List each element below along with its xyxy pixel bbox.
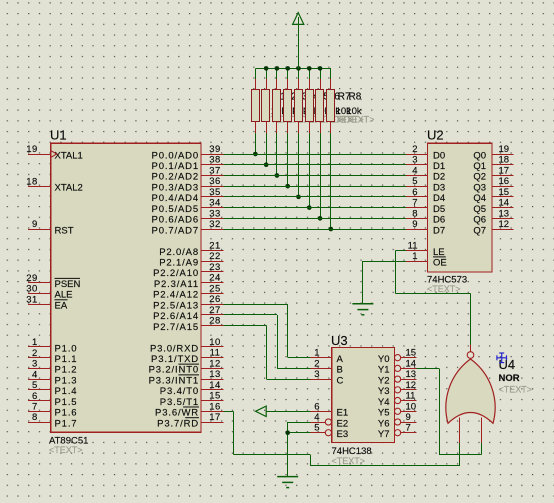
wire R2 top lead (266, 68, 268, 79)
U3 pin 13 (Y2) (395, 376, 401, 382)
svg-text:U2: U2 (427, 128, 444, 143)
U1 pin label overline (178, 363, 199, 365)
U1 pin label overline (185, 417, 199, 419)
wire R1 top lead (255, 68, 257, 79)
svg-text:4: 4 (32, 369, 38, 380)
svg-text:3: 3 (32, 359, 38, 370)
wire R5 top lead (298, 68, 300, 79)
U2 pin 9 (D7) (406, 229, 428, 231)
svg-text:3: 3 (314, 369, 319, 380)
U3 pin 5 (E3) (310, 432, 325, 434)
svg-text:12: 12 (406, 380, 417, 391)
ground symbol (U2 OE) (352, 304, 373, 315)
svg-text:R8: R8 (349, 91, 362, 102)
U1 pin 39 (P0.0/AD0) (201, 154, 223, 156)
svg-text:NOR: NOR (499, 373, 520, 384)
wire AD0 U1-U2 (223, 154, 405, 156)
svg-text:30: 30 (26, 284, 38, 295)
svg-text:P2.4/A12: P2.4/A12 (153, 290, 199, 301)
svg-text:12: 12 (499, 219, 510, 230)
svg-text:P0.6/AD6: P0.6/AD6 (152, 215, 199, 226)
svg-text:28: 28 (209, 316, 221, 327)
svg-text:36: 36 (209, 176, 221, 187)
U2 pin 4 (D2) (406, 175, 428, 177)
svg-text:Y2: Y2 (378, 375, 390, 386)
wire R8 bottom to AD7 (330, 133, 332, 229)
U2 pin 14 (Q5) (492, 207, 514, 209)
svg-text:RST: RST (55, 225, 74, 236)
svg-text:12: 12 (209, 358, 221, 369)
U1 pin 23 (P2.2/A10) (201, 271, 223, 273)
svg-text:1: 1 (412, 251, 417, 262)
svg-text:D3: D3 (433, 182, 445, 193)
svg-text:11: 11 (406, 391, 416, 402)
svg-text:34: 34 (209, 198, 221, 209)
junction R7/AD6 (318, 216, 323, 221)
svg-text:Y5: Y5 (378, 408, 390, 419)
U4 output bubble (467, 352, 474, 359)
svg-text:Q3: Q3 (473, 182, 486, 193)
U2 pin 16 (Q3) (492, 186, 514, 188)
U3 pin 15 (Y0) (395, 355, 401, 361)
svg-text:P1.7: P1.7 (55, 418, 78, 429)
svg-text:5: 5 (314, 423, 319, 434)
svg-text:7: 7 (412, 198, 417, 209)
U3 pin 11 (Y4) (395, 397, 401, 403)
U1 pin 31 (EA) (28, 304, 51, 306)
svg-text:Y4: Y4 (378, 397, 390, 408)
svg-text:E3: E3 (337, 429, 349, 440)
svg-text:15: 15 (499, 187, 510, 198)
svg-text:P1.5: P1.5 (55, 397, 78, 408)
svg-text:21: 21 (209, 240, 221, 251)
U1 XTAL1 clock mark (51, 151, 56, 157)
svg-text:<TEXT>: <TEXT> (49, 445, 83, 455)
svg-text:Q4: Q4 (473, 193, 486, 204)
svg-text:18: 18 (26, 176, 38, 187)
svg-text:P1.1: P1.1 (55, 354, 78, 365)
U1 pin 12 (P3.2/INT0) (201, 368, 223, 370)
svg-text:4: 4 (412, 165, 417, 176)
svg-text:14: 14 (499, 198, 510, 209)
svg-text:37: 37 (209, 165, 221, 176)
svg-text:24: 24 (209, 273, 221, 284)
svg-text:18: 18 (499, 155, 510, 166)
junction R3/AD2 (275, 173, 280, 178)
svg-text:23: 23 (209, 262, 221, 273)
svg-text:Y7: Y7 (378, 429, 390, 440)
U2 pin 2 (D0) (406, 154, 428, 156)
svg-text:P0.5/AD5: P0.5/AD5 (152, 204, 199, 215)
svg-text:P0.2/AD2: P0.2/AD2 (152, 172, 199, 183)
U2 pin 11 (LE) (406, 250, 428, 252)
wire AD4 U1-U2 (223, 196, 405, 198)
svg-text:29: 29 (26, 273, 38, 284)
resistor R8 (327, 90, 335, 122)
svg-text:P2.5/A13: P2.5/A13 (153, 300, 199, 311)
svg-text:7: 7 (32, 401, 38, 412)
U1 pin label overline (183, 406, 199, 408)
svg-text:D1: D1 (433, 161, 445, 172)
svg-text:2: 2 (412, 144, 417, 155)
wire E2/E3 to ground (288, 422, 311, 424)
U1 pin 29 (PSEN) (28, 282, 51, 284)
junction R6/AD5 (307, 205, 312, 210)
junction R1/AD0 (253, 152, 258, 157)
svg-text:16: 16 (499, 176, 510, 187)
svg-text:9: 9 (32, 219, 38, 230)
svg-text:D2: D2 (433, 172, 445, 183)
svg-text:P2.6/A14: P2.6/A14 (153, 311, 199, 322)
MCU U1 AT89C51 body (51, 143, 201, 432)
U1 pin 30 (ALE) (28, 293, 51, 295)
wire AD6 U1-U2 (223, 218, 405, 220)
U3 pin 9 (Y6) (395, 419, 401, 425)
wire R5 bottom to AD4 (298, 133, 300, 197)
svg-text:P1.0: P1.0 (55, 343, 78, 354)
svg-text:EA: EA (55, 300, 68, 311)
U2 OE overline (433, 256, 446, 258)
svg-text:P1.6: P1.6 (55, 408, 78, 419)
svg-text:P3.1/TXD: P3.1/TXD (151, 354, 199, 365)
svg-text:6: 6 (32, 391, 38, 402)
U3 pin 6 (E1) (310, 411, 331, 413)
resistor R2 (262, 90, 270, 122)
svg-text:P3.7/RD: P3.7/RD (157, 418, 199, 429)
svg-text:14: 14 (209, 380, 221, 391)
svg-text:D0: D0 (433, 150, 445, 161)
svg-text:B: B (337, 365, 343, 376)
svg-text:OE: OE (433, 258, 447, 269)
svg-text:25: 25 (209, 283, 221, 294)
U1 pin 36 (P0.3/AD3) (201, 186, 223, 188)
junction top bus (307, 66, 312, 71)
svg-text:LE: LE (433, 247, 445, 258)
svg-text:19: 19 (26, 144, 38, 155)
U2 pin 13 (Q6) (492, 218, 514, 220)
svg-text:Q2: Q2 (473, 172, 486, 183)
U3 pin 7 (Y7) (395, 430, 401, 436)
svg-text:8: 8 (412, 208, 417, 219)
svg-text:P2.1/A9: P2.1/A9 (159, 258, 199, 269)
svg-text:5: 5 (412, 176, 417, 187)
U2 pin 3 (D1) (406, 164, 428, 166)
wire U2 OE to ground (362, 261, 405, 263)
junction top bus (296, 66, 301, 71)
junction R8/AD7 (329, 227, 334, 232)
svg-text:P0.3/AD3: P0.3/AD3 (152, 182, 199, 193)
svg-text:D6: D6 (433, 215, 445, 226)
U1 pin 32 (P0.7/AD7) (201, 229, 223, 231)
wire A21 to U3 (223, 304, 288, 306)
wire U3 Y1 to U4 input 2 (417, 368, 439, 370)
junction E2/E3 (285, 430, 290, 435)
svg-text:E1: E1 (337, 408, 349, 419)
svg-text:15: 15 (209, 391, 221, 402)
U4 output pin stub (470, 344, 472, 351)
input terminal on U3 E1 (256, 406, 267, 416)
svg-text:6: 6 (412, 187, 417, 198)
svg-text:U1: U1 (50, 128, 67, 143)
svg-text:P0.7/AD7: P0.7/AD7 (152, 225, 199, 236)
U3 pin 14 (Y1) (395, 365, 401, 371)
wire R6 top lead (309, 68, 311, 79)
resistor R3 (273, 90, 281, 122)
latch U2 74HC573 body (428, 143, 493, 272)
svg-text:P3.4/T0: P3.4/T0 (160, 386, 199, 397)
U1 pin 26 (P2.5/A13) (201, 304, 223, 306)
U1 pin 37 (P0.2/AD2) (201, 175, 223, 177)
svg-text:ALE: ALE (55, 290, 73, 301)
U1 pin 28 (P2.7/A15) (201, 325, 223, 327)
svg-text:P2.0/A8: P2.0/A8 (159, 247, 199, 258)
svg-text:Q0: Q0 (473, 150, 486, 161)
svg-text:27: 27 (209, 305, 221, 316)
decoder U3 74HC138 body (332, 347, 395, 442)
U3 pin 3 (C) (310, 379, 331, 381)
wire R1 bottom to AD0 (255, 133, 257, 154)
svg-text:10: 10 (209, 337, 221, 348)
svg-text:6: 6 (314, 401, 319, 412)
junction R4/AD3 (285, 184, 290, 189)
U1 pin 14 (P3.4/T0) (201, 389, 223, 391)
U3 pin 4 (E2) (310, 422, 325, 424)
junction R2/AD1 (264, 162, 269, 167)
wire R3 top lead (276, 68, 278, 79)
svg-text:8: 8 (32, 412, 38, 423)
svg-text:Q5: Q5 (473, 204, 486, 215)
svg-text:3: 3 (412, 155, 417, 166)
U2 pin 1 (OE) (406, 261, 428, 263)
U1 pin 7 (P1.6) (28, 411, 51, 413)
resistor R1 (252, 90, 260, 122)
svg-text:1: 1 (32, 337, 38, 348)
svg-text:1: 1 (314, 348, 319, 359)
svg-text:39: 39 (209, 144, 221, 155)
junction top bus (285, 66, 290, 71)
U3 pin 2 (B) (310, 368, 331, 370)
svg-text:14: 14 (406, 358, 417, 369)
wire R7 top lead (320, 68, 322, 79)
svg-text:19: 19 (499, 144, 510, 155)
svg-text:P2.2/A10: P2.2/A10 (153, 268, 199, 279)
U2 pin 5 (D3) (406, 186, 428, 188)
svg-text:22: 22 (209, 251, 221, 262)
U2 pin 12 (Q7) (492, 229, 514, 231)
svg-text:U3: U3 (331, 333, 348, 348)
resistor R6 (306, 90, 314, 122)
junction top bus (275, 66, 280, 71)
svg-text:Y0: Y0 (378, 354, 390, 365)
U4 input pin 2 (481, 418, 483, 443)
wire R4 top lead (287, 68, 289, 79)
svg-text:Q6: Q6 (473, 215, 486, 226)
svg-text:P0.1/AD1: P0.1/AD1 (152, 161, 199, 172)
U1 pin 15 (P3.5/T1) (201, 400, 223, 402)
svg-text:P0.0/AD0: P0.0/AD0 (152, 150, 199, 161)
wire AD7 U1-U2 (223, 229, 405, 231)
wire R3 bottom to AD2 (276, 133, 278, 176)
wire terminal to E1 (266, 411, 310, 413)
svg-text:2: 2 (32, 348, 38, 359)
U1 pin label overline (178, 374, 199, 376)
svg-text:33: 33 (209, 208, 221, 219)
U1 pin 9 (RST) (28, 229, 51, 231)
svg-text:Y1: Y1 (378, 365, 390, 376)
svg-text:C: C (337, 375, 344, 386)
U1 pin 34 (P0.5/AD5) (201, 207, 223, 209)
U4 origin marker (blue cross) (497, 353, 507, 363)
wire A23 to U3 (223, 325, 266, 327)
svg-text:38: 38 (209, 155, 221, 166)
svg-text:7: 7 (406, 423, 411, 434)
svg-text:XTAL2: XTAL2 (55, 182, 83, 193)
U1 pin 19 (XTAL1) (28, 154, 51, 156)
wire R4 bottom to AD3 (287, 133, 289, 186)
svg-text:P3.2/INT0: P3.2/INT0 (149, 365, 199, 376)
resistor R7 (316, 90, 324, 122)
wire AD2 U1-U2 (223, 175, 405, 177)
svg-text:<TEXT>: <TEXT> (341, 115, 375, 125)
U2 pin 18 (Q1) (492, 164, 514, 166)
svg-text:5: 5 (32, 380, 38, 391)
svg-text:P3.6/WR: P3.6/WR (155, 408, 199, 419)
svg-text:4: 4 (314, 412, 319, 423)
wire U4 output to U2 LE (396, 250, 406, 252)
svg-text:16: 16 (209, 401, 221, 412)
U3 pin 10 (Y5) (395, 408, 401, 414)
U2 pin 6 (D4) (406, 196, 428, 198)
U1 pin 16 (P3.6/WR) (201, 411, 223, 413)
svg-text:17: 17 (499, 165, 510, 176)
svg-text:Y3: Y3 (378, 386, 390, 397)
power terminal VCC arrow (298, 17, 300, 68)
wire top bus of resistor pack (255, 68, 330, 70)
U3 pin 1 (A) (310, 357, 331, 359)
svg-text:D5: D5 (433, 204, 445, 215)
svg-text:D7: D7 (433, 225, 445, 236)
wire R7 bottom to AD6 (320, 133, 322, 219)
U1 pin 27 (P2.6/A14) (201, 314, 223, 316)
U1 PSEN overline (55, 277, 81, 279)
U2 pin 15 (Q4) (492, 196, 514, 198)
svg-text:Q7: Q7 (473, 225, 486, 236)
svg-text:PSEN: PSEN (55, 279, 81, 290)
svg-text:<TEXT>: <TEXT> (499, 384, 533, 394)
wire R6 bottom to AD5 (309, 133, 311, 208)
svg-text:32: 32 (209, 219, 221, 230)
svg-text:P3.3/INT1: P3.3/INT1 (149, 375, 199, 386)
wire R2 bottom to AD1 (266, 133, 268, 165)
ground symbol (U3 enables) (277, 477, 298, 488)
svg-text:Q1: Q1 (473, 161, 486, 172)
svg-text:E2: E2 (337, 418, 349, 429)
U1 pin 10 (P3.0/RXD) (201, 346, 223, 348)
svg-text:P3.0/RXD: P3.0/RXD (150, 343, 199, 354)
wire AD5 U1-U2 (223, 207, 405, 209)
U1 pin 1 (P1.0) (28, 346, 51, 348)
svg-text:13: 13 (499, 208, 510, 219)
wire A22 to U3 (223, 314, 277, 316)
U1 EA overline (55, 299, 68, 301)
U1 pin 22 (P2.1/A9) (201, 261, 223, 263)
U1 pin 11 (P3.1/TXD) (201, 357, 223, 359)
svg-text:A: A (337, 354, 344, 365)
U1 pin 17 (P3.7/RD) (201, 422, 223, 424)
U1 pin 3 (P1.2) (28, 368, 51, 370)
U1 pin 25 (P2.4/A12) (201, 293, 223, 295)
svg-text:15: 15 (406, 348, 417, 359)
svg-text:XTAL1: XTAL1 (55, 150, 83, 161)
resistor R5 (295, 90, 303, 122)
svg-text:P2.7/A15: P2.7/A15 (153, 322, 199, 333)
svg-text:10: 10 (406, 401, 417, 412)
svg-text:<TEXT>: <TEXT> (427, 284, 461, 294)
svg-text:P3.5/T1: P3.5/T1 (160, 397, 199, 408)
svg-text:P0.4/AD4: P0.4/AD4 (152, 193, 199, 204)
U1 pin 35 (P0.4/AD4) (201, 196, 223, 198)
svg-text:17: 17 (209, 412, 221, 423)
svg-text:31: 31 (26, 294, 38, 305)
svg-text:26: 26 (209, 294, 221, 305)
U1 pin 5 (P1.4) (28, 389, 51, 391)
U1 pin 4 (P1.3) (28, 379, 51, 381)
wire R8 top lead (330, 68, 332, 79)
svg-text:13: 13 (406, 369, 417, 380)
svg-text:P1.4: P1.4 (55, 386, 78, 397)
junction top bus (264, 66, 269, 71)
svg-text:2: 2 (314, 358, 319, 369)
U1 pin 6 (P1.5) (28, 400, 51, 402)
U1 pin 38 (P0.1/AD1) (201, 164, 223, 166)
wire AD1 U1-U2 (223, 164, 405, 166)
resistor R4 (284, 90, 292, 122)
svg-text:P1.2: P1.2 (55, 365, 78, 376)
wire WR from U1 to U4 input 1 (223, 411, 233, 413)
svg-text:9: 9 (412, 219, 417, 230)
svg-text:9: 9 (406, 412, 411, 423)
junction top bus (318, 66, 323, 71)
U4 input pin 1 (459, 418, 461, 443)
NOR gate U4 body (446, 359, 495, 423)
U1 pin 2 (P1.1) (28, 357, 51, 359)
svg-text:35: 35 (209, 187, 221, 198)
U1 pin 13 (P3.3/INT1) (201, 379, 223, 381)
U3 pin 12 (Y3) (395, 387, 401, 393)
svg-text:Y6: Y6 (378, 418, 390, 429)
svg-text:11: 11 (408, 240, 418, 251)
svg-text:11: 11 (210, 348, 221, 359)
U1 pin 18 (XTAL2) (28, 186, 51, 188)
U2 pin 7 (D5) (406, 207, 428, 209)
svg-text:P2.3/A11: P2.3/A11 (154, 279, 199, 290)
U1 pin 8 (P1.7) (28, 422, 51, 424)
svg-text:<TEXT>: <TEXT> (332, 456, 366, 466)
U1 pin 33 (P0.6/AD6) (201, 218, 223, 220)
U2 pin 8 (D6) (406, 218, 428, 220)
svg-text:13: 13 (209, 369, 221, 380)
U1 pin 24 (P2.3/A11) (201, 282, 223, 284)
svg-text:P1.3: P1.3 (55, 375, 78, 386)
U2 pin 19 (Q0) (492, 154, 514, 156)
U2 pin 17 (Q2) (492, 175, 514, 177)
U1 pin 21 (P2.0/A8) (201, 250, 223, 252)
wire AD3 U1-U2 (223, 186, 405, 188)
svg-text:D4: D4 (433, 193, 445, 204)
junction R5/AD4 (296, 195, 301, 200)
